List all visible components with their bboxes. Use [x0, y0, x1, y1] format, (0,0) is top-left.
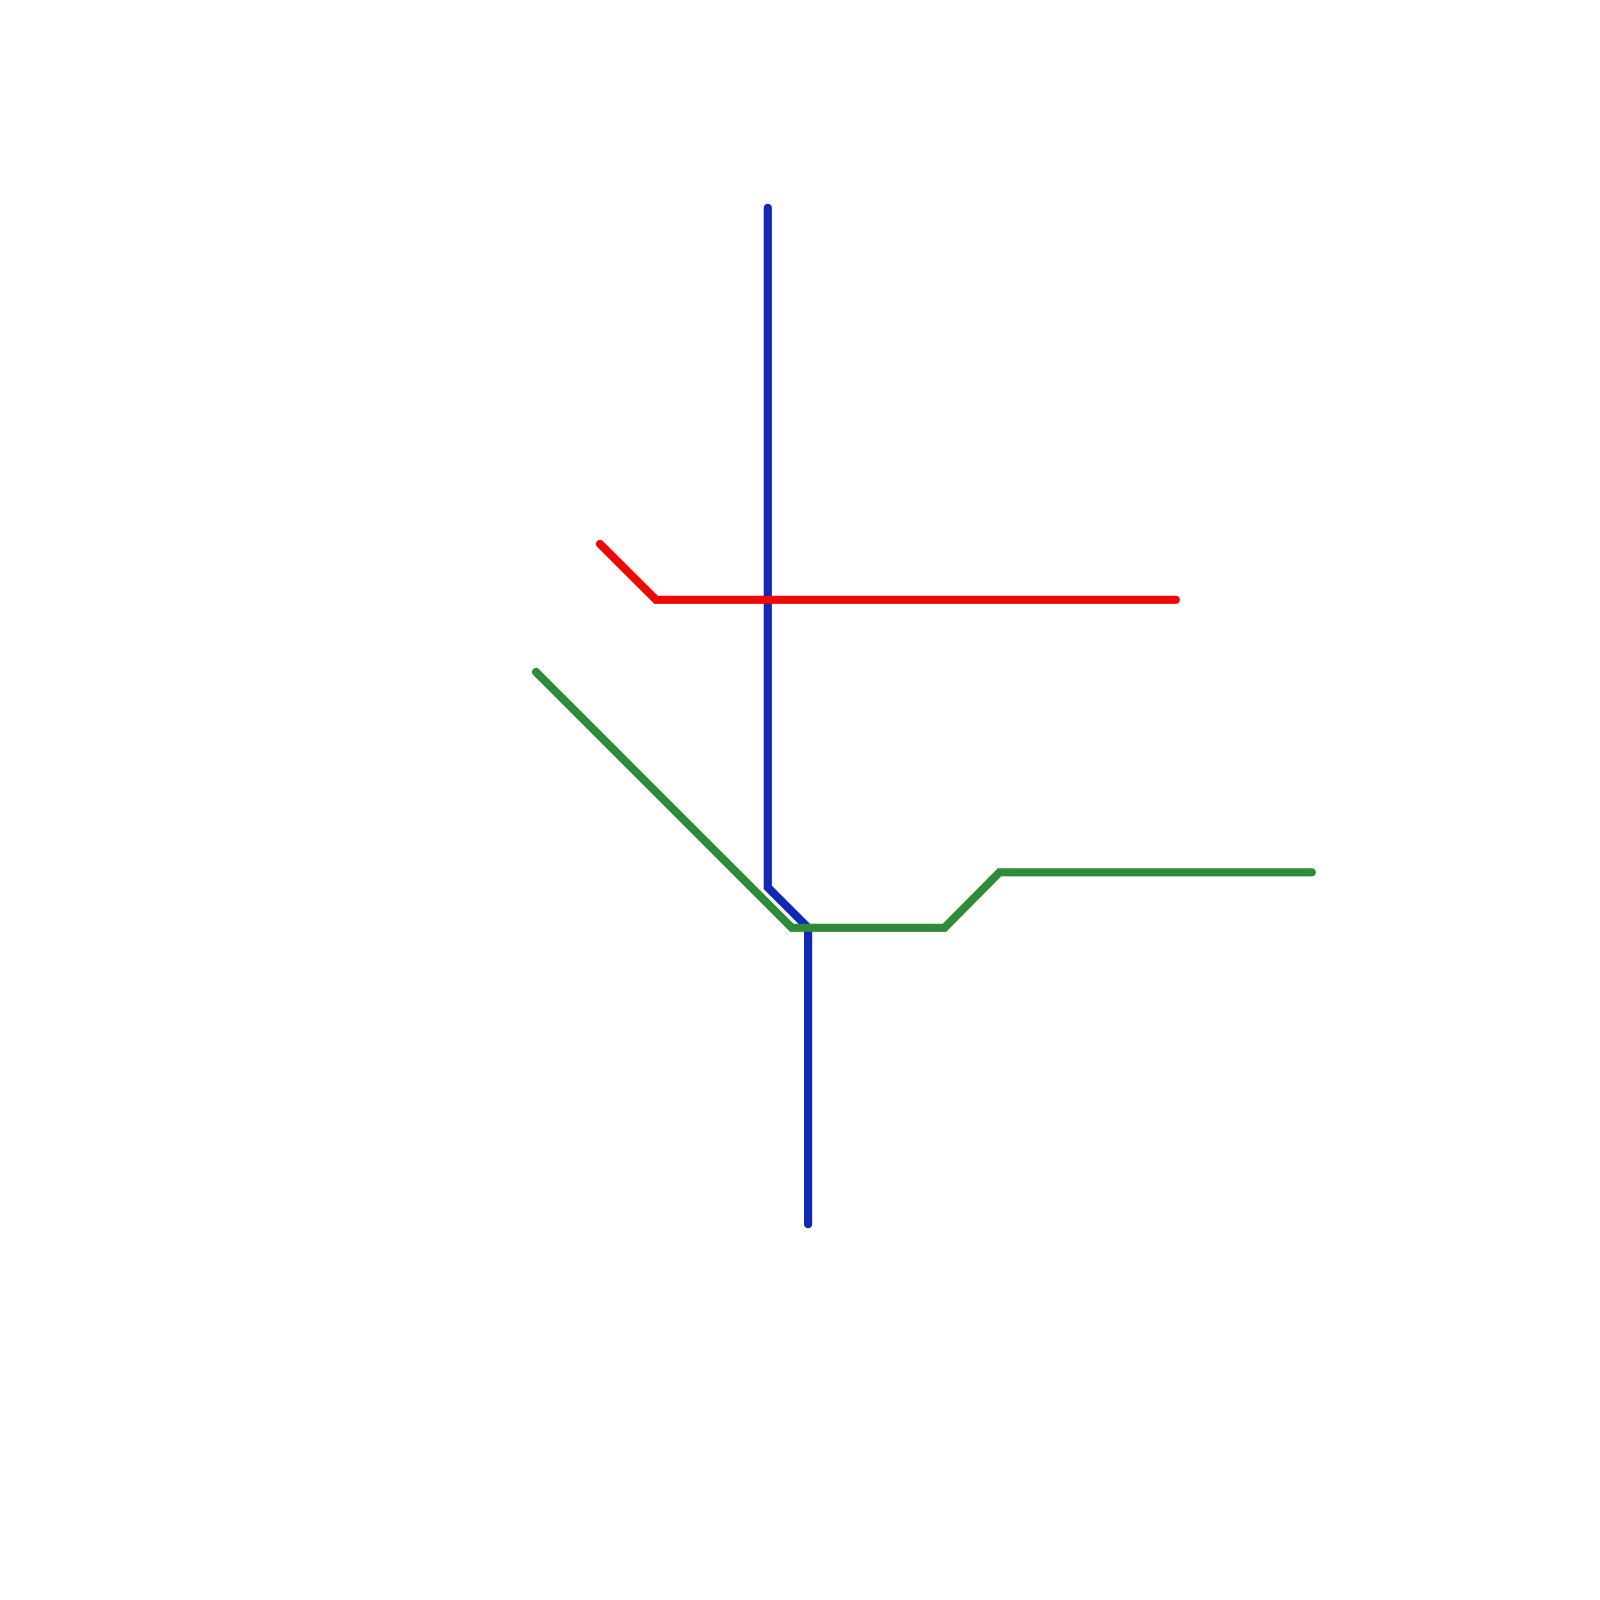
red line (diagonal then horizontal)	[600, 544, 1176, 600]
blue line (vertical trunk with jog)	[768, 208, 808, 1224]
green line (long diagonal, horizontal, up-jog, horizontal)	[536, 672, 1312, 928]
